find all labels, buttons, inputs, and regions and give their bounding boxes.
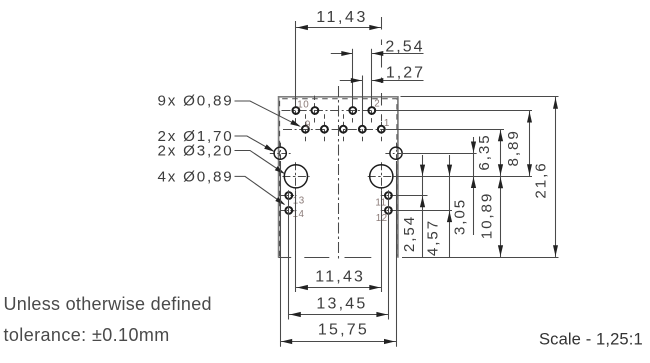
dim 6,35 right (500, 129, 502, 176)
ext pin12 row (394, 210, 452, 212)
svg-text:3,05: 3,05 (452, 198, 469, 235)
hole post right (3.20) (370, 165, 393, 188)
hole A1 centerline v (280, 143, 282, 164)
svg-text:2: 2 (374, 98, 380, 109)
svg-text:6,35: 6,35 (476, 133, 493, 170)
dim 11,43 top ext left (295, 21, 297, 106)
dim 1,27 top line right tail (372, 80, 424, 82)
row1 centerline (282, 110, 375, 112)
dim 11,43 bottom line (296, 287, 381, 289)
hole pin 8 (0.89) (312, 107, 319, 114)
dim 15,75 bottom ext right (396, 161, 398, 347)
pin13/14 tick h lower (281, 210, 297, 212)
ext body bottom (402, 257, 559, 259)
svg-text:21,6: 21,6 (533, 161, 550, 198)
board edge dash left (279, 257, 292, 259)
connector body outline (dashed) (280, 99, 397, 256)
dim 10,89 right (500, 176, 502, 257)
svg-text:2,54: 2,54 (385, 38, 424, 55)
dim 11,43 top line (296, 27, 381, 29)
pin11/12 tick h lower (381, 210, 397, 212)
svg-text:4x Ø0,89: 4x Ø0,89 (158, 169, 234, 186)
svg-text:15,75: 15,75 (318, 322, 369, 339)
svg-text:4,57: 4,57 (425, 219, 442, 256)
ext hole 3,20 row (393, 176, 532, 178)
hole B2 centerline v (381, 162, 383, 190)
svg-text:11,43: 11,43 (315, 269, 365, 286)
pin col tick row1 #2 (352, 96, 354, 126)
hole B2 centerline h (368, 176, 394, 178)
pin col tick row2 #1 (324, 114, 326, 144)
dim 1,27 top ext left (362, 76, 364, 125)
ext pin11 row (394, 195, 428, 197)
pin11/12 tick h upper (381, 195, 397, 197)
dim 11,43 top ext right (381, 17, 383, 125)
hole pin 11 (0.89) (385, 192, 392, 199)
hole pin 3 (0.89) (359, 126, 366, 133)
dim 15,75 bottom line (280, 341, 396, 343)
callout 9x leader (235, 101, 300, 126)
pin col tick row2 #3 (362, 114, 364, 144)
hole post left (3.20) (284, 165, 307, 188)
hole pin 1 (0.89) (378, 126, 385, 133)
svg-text:13: 13 (293, 196, 305, 207)
hole mount right (1.70) (390, 147, 402, 159)
svg-text:tolerance: ±0.10mm: tolerance: ±0.10mm (4, 325, 170, 345)
dim 1,27 top line left tail (340, 80, 363, 82)
hole pin 7 (0.89) (321, 126, 328, 133)
ext row2 (385, 129, 504, 131)
svg-text:Unless otherwise defined: Unless otherwise defined (4, 294, 212, 314)
row2 centerline (283, 129, 384, 131)
dim 8,89 right (529, 111, 531, 177)
ext body top (401, 96, 559, 98)
callout 2x 1,70 leader (235, 136, 274, 151)
dim 3,05 right (473, 137, 475, 235)
pin col tick row1 #1 (314, 96, 316, 126)
svg-text:10,89: 10,89 (478, 192, 495, 240)
svg-text:10: 10 (297, 100, 309, 111)
hole pin 4 (0.89) (349, 107, 356, 114)
dim 11,43 bottom ext right (381, 191, 383, 292)
svg-text:Scale - 1,25:1: Scale - 1,25:1 (539, 330, 643, 349)
hole pin 2 (0.89) (368, 107, 375, 114)
ext hole 1,70 row (403, 153, 477, 155)
dim 13,45 bottom ext right (388, 190, 390, 319)
pin col tick row2 #4 (381, 114, 383, 144)
svg-text:1,27: 1,27 (386, 65, 425, 82)
hole pin 10 (0.89) (293, 107, 300, 114)
dim 4,57 right (449, 155, 451, 257)
hole A2 centerline v (396, 143, 398, 164)
svg-text:13,45: 13,45 (316, 295, 367, 312)
dim 21,6 right (555, 97, 557, 257)
dim 13,45 bottom line (289, 314, 389, 316)
hole pin 12 (0.89) (385, 207, 392, 214)
svg-text:1: 1 (384, 118, 390, 129)
svg-text:11,43: 11,43 (316, 9, 368, 26)
pin col tick row2 #2 (343, 114, 345, 144)
hole pin 14 (0.89) (285, 207, 292, 214)
callout 4x 0,89 leader (235, 176, 285, 204)
dim 2,54 top line right tail (372, 53, 424, 55)
hole mount left (1.70) (274, 147, 286, 159)
dim 15,75 bottom ext left (280, 161, 282, 347)
pin13/14 tick h upper (281, 195, 297, 197)
svg-text:2,54: 2,54 (401, 215, 418, 252)
vertical centerline (338, 86, 340, 262)
hole pin 9 (0.89) (302, 126, 309, 133)
hole A1 centerline h (270, 153, 291, 155)
dim 2,54 top line left tail (331, 53, 353, 55)
dim 2,54 top ext left (352, 49, 354, 106)
svg-text:9x Ø0,89: 9x Ø0,89 (158, 93, 234, 110)
svg-text:14: 14 (293, 209, 305, 220)
svg-text:2x Ø3,20: 2x Ø3,20 (158, 143, 234, 160)
board edge dash mid-left (304, 257, 329, 259)
dim 13,45 bottom ext left (288, 190, 290, 319)
svg-text:8,89: 8,89 (505, 129, 522, 166)
hole B1 centerline h (282, 176, 309, 178)
hole A2 centerline h (385, 153, 401, 155)
hole B1 centerline v (295, 162, 297, 190)
callout 2x 3,20 leader (235, 151, 284, 174)
board edge dash mid-right (345, 257, 372, 259)
ext row1 (376, 110, 532, 112)
pin col tick row1 #3 (371, 96, 373, 126)
pin col tick row1 #0 (295, 96, 297, 126)
pin col tick row2 #0 (305, 114, 307, 144)
hole pin 13 (0.89) (285, 192, 292, 199)
dim 2,54 top ext right (371, 49, 373, 106)
hole pin 5 (0.89) (340, 126, 347, 133)
connector body outline (grey) (279, 97, 398, 258)
svg-text:9: 9 (305, 119, 311, 130)
dim 2,54 right (422, 155, 424, 257)
dim 11,43 bottom ext left (295, 191, 297, 292)
